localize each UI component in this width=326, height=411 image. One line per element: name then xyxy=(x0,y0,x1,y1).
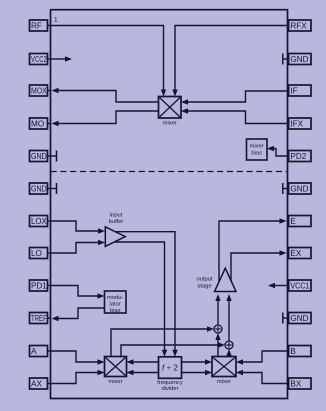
svg-text:RF: RF xyxy=(31,22,42,31)
input buffer amplifier xyxy=(105,212,125,246)
section divider dashed line xyxy=(51,171,288,173)
wire right mixer out1 to S1 xyxy=(215,333,220,357)
wire PD2 to mixer bias xyxy=(267,146,288,156)
summing junction S1 xyxy=(214,325,222,333)
svg-text:RFX: RFX xyxy=(290,22,307,31)
mixer U3 (right modulator mixer) xyxy=(212,357,236,385)
pin GND (right row 2) xyxy=(289,54,311,65)
svg-text:divider: divider xyxy=(161,386,178,392)
svg-text:stage: stage xyxy=(197,283,211,289)
pin PD2 (right row 5) xyxy=(289,151,311,162)
svg-text:E: E xyxy=(290,217,296,226)
wire divider to left mixer upper xyxy=(127,359,159,364)
pin GND (right row 10) xyxy=(289,313,311,324)
wire divider to left mixer lower xyxy=(127,370,159,375)
frequency divider block xyxy=(157,357,183,392)
svg-text:buffer: buffer xyxy=(109,219,124,225)
pin PD1 (left row 9) xyxy=(30,280,51,291)
ground symbol at right GND pin row6 xyxy=(283,183,288,194)
ground symbol at right GND pin row10 xyxy=(283,313,288,324)
svg-text:VCC2: VCC2 xyxy=(31,55,47,64)
pin VCC2 (left row 2) xyxy=(30,54,51,65)
svg-text:TREF: TREF xyxy=(31,314,47,323)
svg-text:MOX: MOX xyxy=(31,87,47,96)
svg-text:AX: AX xyxy=(31,380,42,389)
pin RF (left row 1) xyxy=(30,20,51,31)
svg-text:BX: BX xyxy=(290,380,301,389)
wire mixer to MO xyxy=(52,111,159,126)
svg-text:GND: GND xyxy=(290,185,308,194)
pin A (left row 11) xyxy=(30,346,51,357)
wire left mixer out2 to S2 xyxy=(121,342,225,356)
wire B to right mixer xyxy=(236,351,288,365)
pin LO (left row 8) xyxy=(30,248,51,259)
svg-text:input: input xyxy=(110,212,123,218)
pin 1 marker xyxy=(54,17,58,24)
summing junction S2 xyxy=(225,341,233,349)
wire PD1 to modulator bias xyxy=(51,286,105,299)
wire buffer output to divider input2 xyxy=(114,242,167,357)
wire right mixer out2 to S2 xyxy=(226,349,231,357)
svg-text:A: A xyxy=(31,347,37,356)
pin B (right row 11) xyxy=(289,346,311,357)
mixer U1 (RF mixer) xyxy=(159,97,182,127)
mixer U2 (left modulator mixer) xyxy=(105,357,127,385)
svg-text:B: B xyxy=(290,347,296,356)
pin VCC1 (right row 9) xyxy=(289,280,311,291)
svg-text:mixer: mixer xyxy=(108,379,122,385)
wire A to left mixer xyxy=(51,351,105,365)
IC outline border xyxy=(51,10,288,399)
wire output stage to E xyxy=(219,218,287,281)
pin AX (left row 12) xyxy=(30,378,51,389)
wire modulator bias to TREF xyxy=(52,308,105,321)
wire VCC1 supply arrow xyxy=(268,283,288,288)
pin TREF (left row 10) xyxy=(30,313,51,324)
wire S2 to output stage xyxy=(226,294,231,341)
wire LO to input buffer xyxy=(51,240,106,253)
svg-text:mixer: mixer xyxy=(250,144,264,150)
svg-text:bias: bias xyxy=(251,150,262,156)
svg-text:frequency: frequency xyxy=(157,380,183,386)
svg-text:LOX: LOX xyxy=(31,217,47,226)
pin GND (left row 5) xyxy=(30,151,51,162)
pin LOX (left row 7) xyxy=(30,216,51,227)
svg-text:mixer: mixer xyxy=(217,379,231,385)
svg-text:LO: LO xyxy=(31,249,42,258)
svg-text:output: output xyxy=(196,277,213,283)
svg-text:MO: MO xyxy=(31,120,44,129)
ground symbol at left GND pin row5 xyxy=(51,151,57,162)
svg-text:1: 1 xyxy=(54,17,58,24)
svg-text:bias: bias xyxy=(110,308,121,314)
wire RF to mixer xyxy=(48,26,167,97)
wire buffer output to divider input1 xyxy=(116,232,178,357)
modulator bias block xyxy=(105,291,127,314)
pin EX (right row 8) xyxy=(289,248,311,259)
wire LOX to input buffer xyxy=(51,221,106,234)
wire AX to left mixer xyxy=(51,370,105,384)
svg-text:mixer: mixer xyxy=(163,120,177,126)
svg-text:lator: lator xyxy=(110,302,121,308)
svg-text:PD1: PD1 xyxy=(31,282,47,291)
svg-text:IF: IF xyxy=(290,87,297,96)
pin BX (right row 12) xyxy=(289,378,311,389)
wire IFX to mixer xyxy=(181,108,288,123)
wire output stage to EX xyxy=(231,250,287,281)
svg-text:modu-: modu- xyxy=(107,295,124,301)
pin MO (left row 4) xyxy=(30,118,51,129)
svg-text:GND: GND xyxy=(290,55,308,64)
output stage amplifier xyxy=(196,268,236,291)
wire S1 to output stage xyxy=(215,294,220,325)
mixer bias block xyxy=(247,139,268,160)
pin E (right row 7) xyxy=(289,216,311,227)
svg-text:GND: GND xyxy=(290,314,308,323)
pin GND (left row 6) xyxy=(30,183,51,194)
pin IFX (right row 4) xyxy=(289,118,311,129)
pin MOX (left row 3) xyxy=(30,85,51,96)
svg-text:GND: GND xyxy=(31,185,47,194)
svg-text:PD2: PD2 xyxy=(290,152,306,161)
svg-text:IFX: IFX xyxy=(290,120,303,129)
wire BX to right mixer xyxy=(236,370,288,384)
wire IF to mixer xyxy=(181,91,288,105)
wire mixer to MOX xyxy=(52,88,159,102)
wire left mixer out1 to S1 xyxy=(111,326,214,356)
svg-text:EX: EX xyxy=(290,249,301,258)
pin IF (right row 3) xyxy=(289,85,311,96)
wire divider to right mixer upper xyxy=(182,359,213,364)
svg-text:f ÷ 2: f ÷ 2 xyxy=(162,364,178,373)
wire RFX to mixer xyxy=(172,26,287,97)
ground symbol at right GND pin row2 xyxy=(283,54,288,65)
pin GND (right row 6) xyxy=(289,183,311,194)
wire divider to right mixer lower xyxy=(182,370,213,375)
ground symbol at left GND pin row6 xyxy=(51,183,57,194)
svg-text:GND: GND xyxy=(31,152,47,161)
svg-text:VCC1: VCC1 xyxy=(290,282,309,291)
pin RFX (right row 1) xyxy=(289,20,311,31)
wire VCC2 supply arrow xyxy=(51,56,73,61)
